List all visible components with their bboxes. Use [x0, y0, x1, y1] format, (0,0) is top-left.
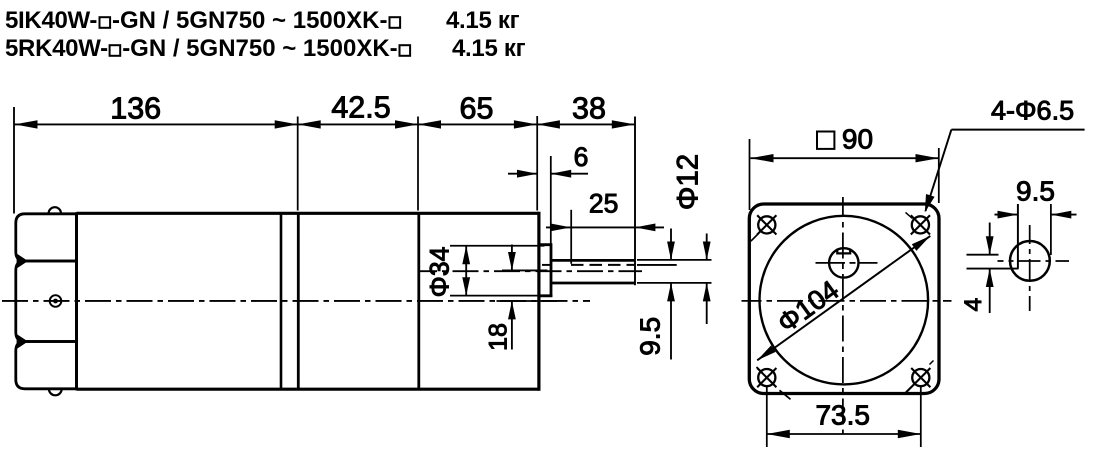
rear cap divider wedge 1	[17, 254, 28, 269]
motor body bottom edge	[77, 388, 540, 391]
svg-text:38: 38	[572, 91, 606, 125]
dimension line row 136/42.5/65/38	[14, 123, 635, 125]
shaft centerline	[419, 270, 642, 272]
svg-text:4: 4	[960, 298, 987, 312]
svg-text:65: 65	[460, 91, 494, 125]
dimension 6	[508, 142, 588, 244]
svg-text:18: 18	[485, 323, 513, 351]
svg-text:5IK40W-: 5IK40W-	[5, 7, 97, 34]
front view of mounting flange	[742, 96, 1085, 447]
rear cap divider wedge 2	[17, 334, 28, 349]
svg-text:9.5: 9.5	[1016, 175, 1055, 206]
bolt hole top-left	[751, 215, 777, 241]
cap center ornament dot	[53, 299, 58, 304]
D104 diagonal dimension	[757, 236, 930, 360]
section horizontal centerline	[998, 260, 1070, 262]
extension line x635 shaft end	[634, 117, 636, 286]
cap center ornament circle	[50, 295, 62, 307]
rear cap cell 1	[16, 214, 77, 261]
horizontal centerline	[742, 300, 952, 302]
shaft top edge	[551, 259, 635, 262]
gearhead front face	[537, 212, 540, 391]
rear cap cell 2	[16, 261, 77, 342]
shaft flat chord / extension	[1017, 204, 1019, 269]
svg-text:4.15 кг: 4.15 кг	[452, 35, 526, 62]
svg-text:5RK40W-: 5RK40W-	[5, 35, 108, 62]
dimension 73.5	[767, 387, 921, 448]
extension lines for D12 and 9.5	[637, 259, 712, 261]
extension line x418	[417, 117, 419, 211]
svg-text:9.5: 9.5	[635, 317, 666, 356]
center hole horizontal centerline	[816, 262, 846, 264]
svg-text:-GN / 5GN750 ~ 1500XK-: -GN / 5GN750 ~ 1500XK-	[112, 7, 387, 34]
svg-text:90: 90	[842, 124, 873, 155]
vertical centerline	[842, 197, 844, 435]
center hole keyway	[837, 249, 850, 254]
flange square outline	[749, 204, 939, 394]
rear cap cell 3	[16, 342, 77, 389]
dimension D34	[425, 246, 553, 298]
motor body top edge	[77, 212, 540, 215]
shaft flat hidden line	[542, 264, 551, 266]
svg-text:136: 136	[110, 91, 161, 125]
dimension 25	[546, 189, 664, 264]
svg-text:25: 25	[589, 189, 618, 219]
extension line x537 gearbox face	[536, 116, 538, 211]
svg-text:73.5: 73.5	[815, 399, 870, 430]
title line 1: model designation 5IK40W with weight	[5, 7, 520, 34]
bolt hole bottom-right	[904, 361, 933, 395]
cap screw bump top	[49, 207, 61, 213]
bolt hole top-right	[906, 212, 931, 234]
boss outline	[540, 245, 551, 296]
rear cap right edge	[75, 212, 78, 390]
dimension 4 flat	[960, 223, 1019, 314]
arrowheads of top dimension row	[15, 120, 635, 128]
shaft section detail	[960, 175, 1077, 313]
svg-text:-GN / 5GN750 ~ 1500XK-: -GN / 5GN750 ~ 1500XK-	[122, 35, 397, 62]
dimension D12	[672, 154, 711, 324]
svg-text:6: 6	[574, 142, 589, 172]
svg-text:4-Φ6.5: 4-Φ6.5	[991, 96, 1074, 126]
svg-text:Φ12: Φ12	[672, 154, 705, 210]
shaft bottom edge	[551, 282, 635, 285]
dimension 9.5 shaft	[635, 229, 675, 360]
svg-text:Φ34: Φ34	[425, 247, 455, 298]
svg-text:4.15 кг: 4.15 кг	[446, 7, 520, 34]
svg-text:Φ104: Φ104	[772, 274, 845, 339]
extension line x297.7	[297, 117, 299, 211]
motor body right vertical	[280, 213, 283, 389]
gearhead joint vertical	[417, 213, 420, 389]
svg-text:42.5: 42.5	[331, 90, 390, 124]
pilot circle	[760, 216, 929, 385]
side view of gear motor	[2, 90, 712, 395]
dimension 9.5 section	[995, 175, 1077, 218]
flange ring vertical	[297, 213, 300, 389]
right extension line	[1050, 204, 1052, 255]
dimension 18 offset	[485, 245, 558, 351]
section vertical centerline	[1029, 225, 1031, 311]
bolt hole bottom-left	[757, 367, 791, 399]
shaft section circle	[1010, 241, 1050, 281]
extension line x14	[13, 107, 15, 214]
cap screw bump bottom	[49, 389, 62, 395]
center hole	[829, 248, 858, 277]
motor centerline	[2, 300, 590, 302]
square-90 dimension	[750, 124, 939, 211]
label 4-D6.5 with leader	[925, 96, 1085, 213]
title line 2: model designation 5RK40W with weight	[5, 35, 526, 62]
